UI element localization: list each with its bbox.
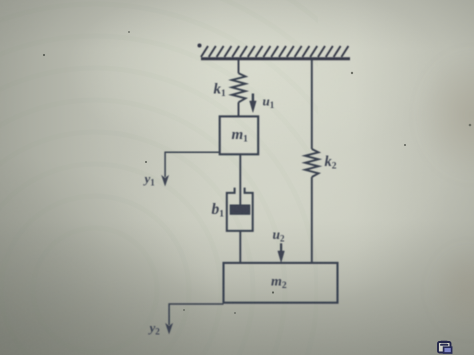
wire mass m1 to damper b1 [239,154,241,205]
arrow u1 [250,94,257,113]
mass m1 [220,116,259,154]
wire ceiling to spring k1 [238,59,240,74]
wire spring k1 to mass m1 [238,102,240,116]
arrow u2 [278,243,285,262]
arrow y2 [166,324,173,334]
ceiling [198,44,351,59]
spring k1 [232,73,246,102]
mass m2 [224,263,338,303]
wire damper b1 to mass m2 [239,231,241,263]
damper b1 cylinder [227,188,253,231]
arrow y1 [162,176,169,186]
damper b1 piston [230,205,249,214]
spring k2 [305,59,318,263]
paste icon [438,341,452,353]
wire y2 takeoff from mass m2 [169,304,223,325]
wire y1 takeoff from mass m1 [165,152,220,177]
dust specks [43,31,471,314]
